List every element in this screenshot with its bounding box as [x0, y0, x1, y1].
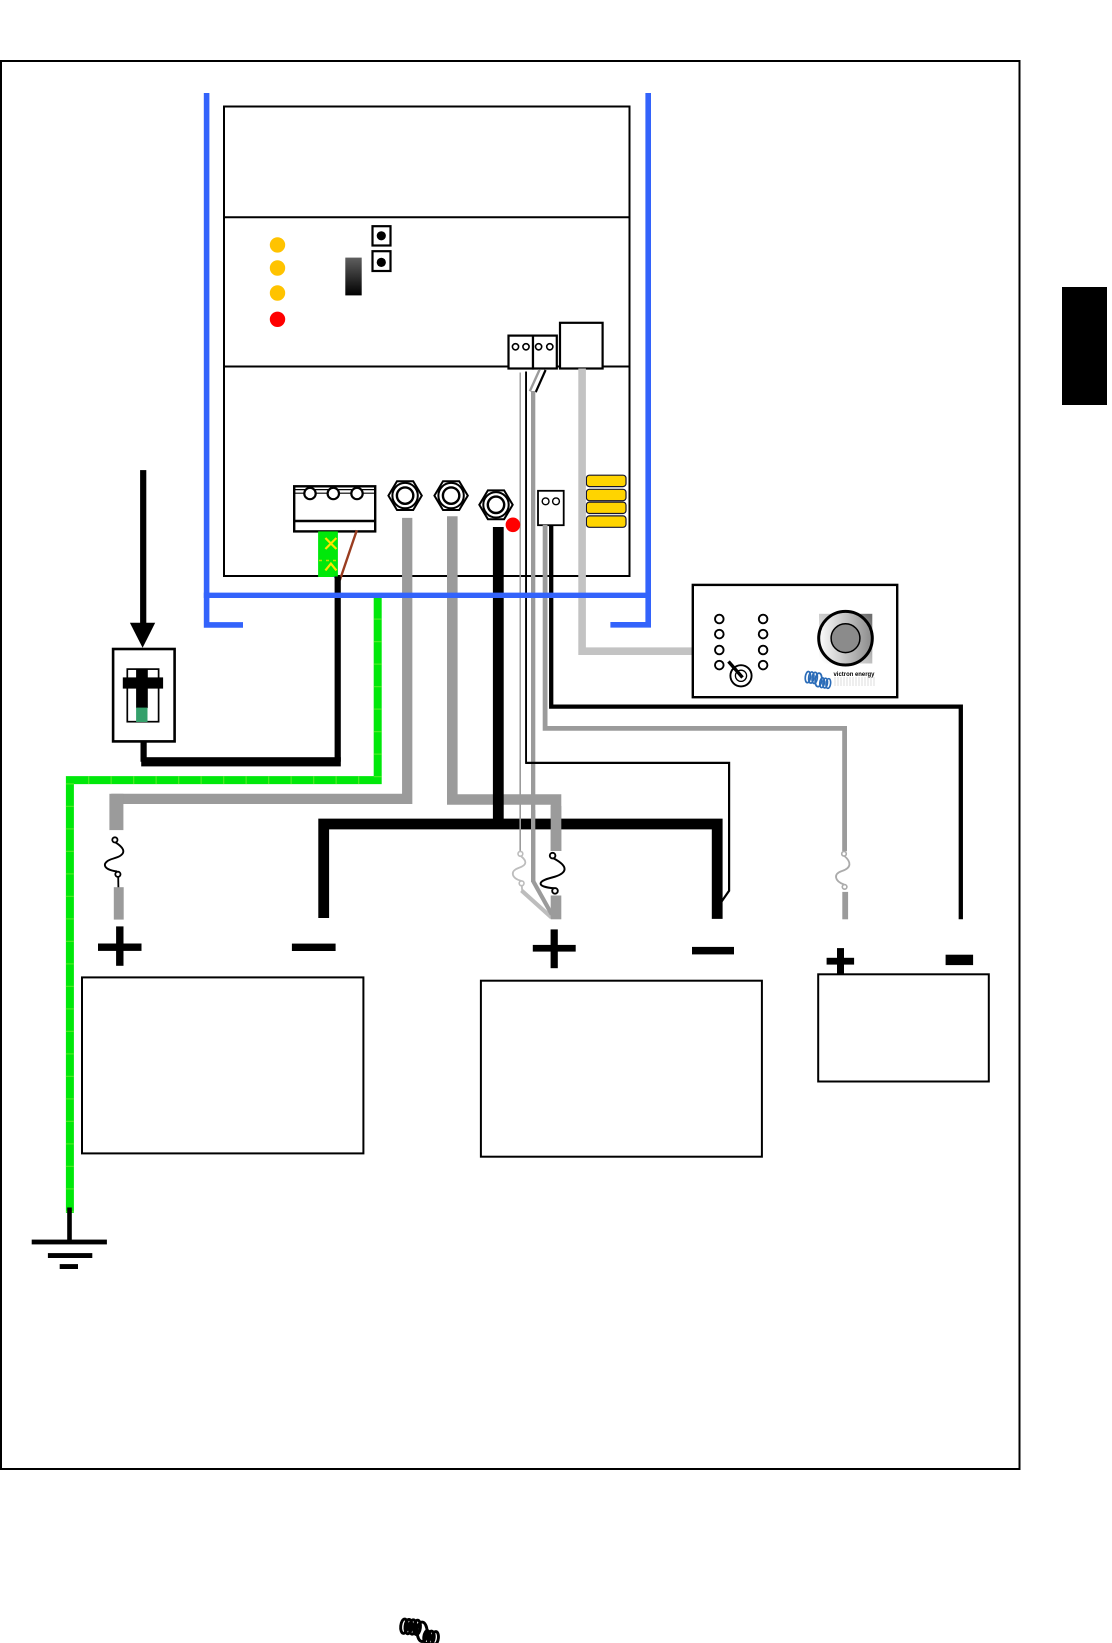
terminal connector block B [533, 336, 557, 369]
unit middle divider [224, 366, 630, 368]
cable gland 2 [434, 481, 467, 510]
panel big knob gradient square [819, 614, 872, 664]
battery3 box [818, 974, 989, 1081]
green earth wire [70, 594, 378, 1213]
yellow fin 3 [586, 502, 626, 513]
LED yellow 2 [270, 260, 285, 275]
panel big knob [819, 611, 873, 665]
bottom victron coil logo black [400, 1619, 439, 1643]
panel barcode stripes [835, 677, 874, 686]
battery3 plus symbol [827, 948, 855, 974]
battery3 fuse [836, 852, 849, 890]
panel LED circles left column [715, 615, 724, 670]
page frame border [1, 61, 1020, 1469]
yellow fin 4 [586, 516, 626, 527]
battery3 plus stub [842, 892, 848, 919]
battery2 plus gray wire from gland2 [452, 516, 556, 851]
yellow fin 2 [586, 489, 626, 500]
cable gland 1 [388, 481, 421, 510]
sense wire thin black vertical [525, 372, 527, 764]
battery2 sense light gray diagonal to terminal [522, 891, 552, 918]
LED yellow 3 [270, 285, 285, 300]
sense wire thin gray vertical [520, 373, 521, 852]
battery2 minus symbol [692, 947, 734, 955]
remote cable light gray [582, 369, 693, 652]
battery1 minus symbol [292, 944, 336, 951]
block B gray drop diagonal [530, 370, 540, 392]
DC connector black wire to battery3 minus [551, 525, 961, 919]
battery2 plus symbol [533, 929, 576, 968]
green earth wire ticks [70, 596, 378, 1213]
yellow fin 1 [586, 475, 626, 486]
fused black wire from green connector to DC fuse [144, 577, 338, 762]
blue chassis bottom bus [204, 593, 651, 598]
battery2 sense thin gray over bus [519, 760, 521, 851]
remote control panel [693, 585, 897, 697]
cable gland 3 [479, 490, 512, 519]
battery2 main fuse [541, 853, 565, 894]
battery1 plus stub [114, 887, 124, 919]
black index tab on right page edge [1062, 287, 1107, 405]
unit top divider [224, 216, 630, 218]
battery1 fuse [105, 837, 123, 888]
arrow AC input [140, 470, 146, 624]
battery2 plus stub [551, 896, 562, 920]
terminal connector block A [509, 336, 534, 369]
red dot [506, 518, 521, 533]
LED yellow 1 [270, 237, 285, 252]
battery1 plus gray wire [116, 518, 407, 830]
battery1 box [82, 977, 363, 1153]
battery2 sense light gray fuse squiggle [513, 851, 526, 891]
tiny blue mark [334, 577, 340, 582]
battery2 box [481, 981, 762, 1157]
sense thin black wire to battery2 minus [526, 763, 729, 905]
AC terminal block [294, 486, 375, 531]
charger unit enclosure box [224, 107, 630, 577]
battery minus bus black [324, 527, 718, 919]
green AC inlet connector [318, 531, 338, 577]
panel rotary switch with needle [729, 662, 752, 687]
battery2 plus wire over bus [551, 806, 562, 851]
AC fuse box [113, 649, 175, 741]
pushbutton square 1 [373, 226, 391, 245]
battery3 minus symbol [946, 955, 974, 965]
rocker switch [345, 258, 361, 296]
block B gray wire vertical [531, 391, 535, 882]
DC connector gray wire to battery3 plus [545, 525, 845, 851]
battery1 plus stub wider [109, 794, 123, 830]
battery1 plus symbol [98, 926, 142, 965]
blue chassis left bracket [207, 93, 243, 625]
block B black drop diagonal [536, 370, 546, 392]
svg-text:victron energy: victron energy [834, 671, 875, 678]
ground symbol [32, 1208, 107, 1270]
brown wire [340, 530, 357, 580]
blue chassis right bracket [610, 93, 648, 625]
pushbutton square 2 [373, 251, 391, 271]
relay white box [560, 323, 603, 369]
panel LED circles right column [759, 615, 768, 670]
block B gray wire over bus and diagonal to battery2 plus [531, 810, 535, 882]
panel victron coil logo blue [805, 671, 832, 688]
DC small connector [538, 491, 564, 525]
LED red [270, 312, 285, 327]
